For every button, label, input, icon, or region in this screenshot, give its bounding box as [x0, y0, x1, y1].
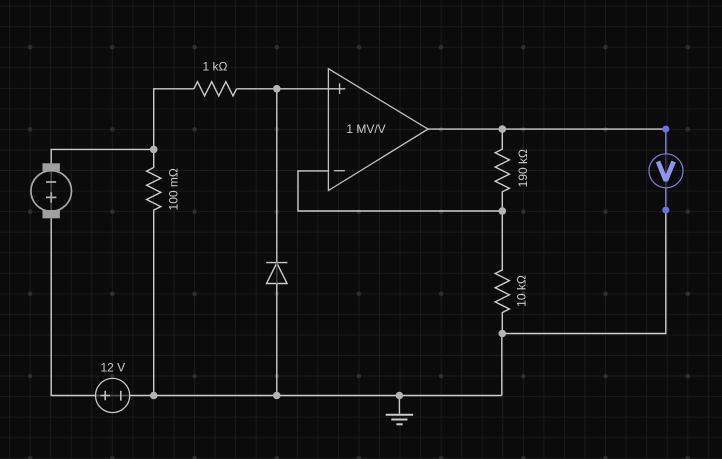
voltmeter bottom terminal: [662, 207, 669, 214]
wire node B to op-amp + input: [277, 88, 346, 90]
resistor R3 190 kΩ: [495, 129, 509, 211]
wire node A up to top-rail corner: [154, 89, 194, 150]
node C junction: [499, 125, 507, 133]
wire node G right and up to voltmeter bottom: [502, 214, 666, 334]
wire node B down to diode cathode: [276, 89, 278, 263]
svg-text:1 kΩ: 1 kΩ: [203, 60, 228, 74]
resistor R4 10 kΩ: [495, 211, 509, 334]
wire diode to bottom rail: [276, 284, 278, 396]
svg-text:1 MV/V: 1 MV/V: [346, 122, 385, 136]
ground node junction: [396, 392, 404, 400]
svg-text:12 V: 12 V: [100, 361, 125, 375]
wire bottom rail node E to corner below node G: [154, 334, 502, 396]
op-amp inverting input mark: [334, 170, 345, 172]
wire faint pass-through under source V1: [96, 395, 129, 397]
wire feedback from op-amp inverting input to node D: [298, 171, 502, 211]
node D junction: [499, 207, 507, 215]
voltmeter M1: [649, 126, 683, 214]
wire op-amp output to node C and voltmeter top: [428, 128, 666, 130]
wire source V1 to node E: [130, 395, 154, 397]
diode D1: [266, 263, 287, 284]
resistor R2 100 mΩ: [147, 149, 161, 395]
node A junction: [150, 146, 158, 154]
wire faint pass-through under battery: [50, 167, 52, 214]
svg-text:100 mΩ: 100 mΩ: [166, 168, 180, 210]
resistor R1 1 kΩ zigzag: [194, 82, 237, 96]
op-amp non-inverting input mark: [339, 83, 341, 94]
node B junction: [273, 85, 281, 93]
wire battery bottom to source V1: [51, 219, 95, 396]
voltage source V1: [96, 378, 130, 412]
wire battery top to node A: [51, 149, 154, 163]
op-amp U1: [328, 69, 428, 191]
svg-text:10 kΩ: 10 kΩ: [515, 275, 529, 307]
wire faint pass-through under diode: [276, 263, 278, 284]
node E junction: [150, 392, 158, 400]
ground: [386, 396, 413, 425]
wire R1 to node B: [237, 88, 277, 90]
voltmeter top terminal: [662, 126, 669, 133]
node F junction: [273, 392, 281, 400]
battery BT1: [31, 163, 72, 218]
svg-text:190 kΩ: 190 kΩ: [516, 149, 530, 187]
node G junction: [499, 330, 507, 338]
